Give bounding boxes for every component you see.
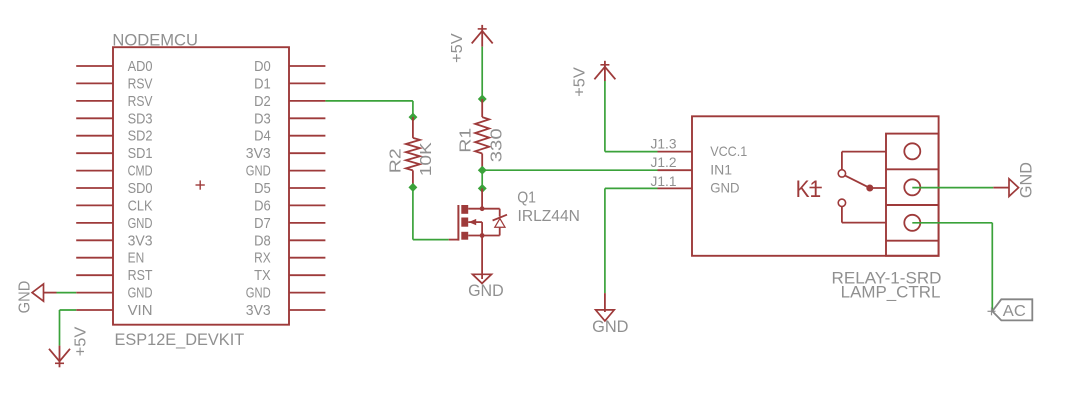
svg-text:D5: D5 — [254, 180, 271, 197]
terminal screw 2 — [904, 179, 920, 195]
svg-text:TX: TX — [254, 267, 271, 284]
relay terminal block — [886, 134, 939, 256]
svg-text:SD3: SD3 — [128, 110, 153, 127]
NODEMCU left pin RSV (row 3) — [76, 93, 152, 110]
NODEMCU left pin GND (row 14) — [76, 285, 152, 302]
NODEMCU left pin SD2 (row 5) — [76, 128, 152, 145]
wire R1 to relay IN1 (net J1.2) — [482, 169, 657, 171]
NODEMCU left pin CMD (row 7) — [76, 163, 152, 180]
svg-text:330: 330 — [488, 128, 505, 162]
svg-text:R1: R1 — [458, 128, 475, 153]
net label J1.1 — [651, 174, 677, 189]
junction at Q1 drain node — [478, 184, 487, 193]
NODEMCU right pin D5 (row 8) — [254, 180, 325, 197]
svg-text:10K: 10K — [418, 142, 435, 176]
svg-text:J1.2: J1.2 — [651, 155, 677, 170]
junction at R1 top — [478, 95, 487, 104]
+5V label at relay — [572, 67, 589, 97]
svg-text:Q1: Q1 — [517, 189, 536, 206]
svg-text:D1: D1 — [254, 75, 271, 92]
svg-text:GND: GND — [710, 180, 739, 196]
svg-text:VIN: VIN — [128, 302, 153, 319]
GND supply arrow left — [32, 284, 43, 301]
wire R2 bottom to Q1 gate — [413, 187, 449, 239]
svg-text:EN: EN — [128, 250, 145, 267]
resistor R2 — [406, 117, 420, 187]
svg-text:D2: D2 — [254, 93, 271, 110]
relay pin GND — [658, 180, 740, 196]
net label J1.2 — [651, 155, 677, 170]
svg-text:IRLZ44N: IRLZ44N — [518, 208, 580, 225]
R1 value label 330 — [488, 128, 505, 162]
svg-text:3V3: 3V3 — [246, 302, 271, 319]
NODEMCU left pin CLK (row 9) — [76, 197, 152, 214]
NODEMCU module U1 box — [113, 47, 289, 325]
NODEMCU right pin GND (row 7) — [246, 163, 326, 180]
svg-text:GND: GND — [592, 317, 628, 336]
svg-text:GND: GND — [468, 281, 504, 300]
NODEMCU left pin GND (row 10) — [76, 215, 152, 232]
NODEMCU left pin SD3 (row 4) — [76, 110, 152, 127]
net endpoint cross at AC — [988, 307, 996, 315]
terminal screw 3 — [904, 215, 920, 231]
NODEMCU right pin D3 (row 4) — [254, 110, 325, 127]
NODEMCU left pin 3V3 (row 11) — [76, 232, 152, 249]
svg-text:CLK: CLK — [128, 197, 153, 214]
wire ESP VIN pin to +5V arrow — [60, 310, 77, 346]
NODEMCU right pin 3V3 (row 6) — [246, 145, 326, 162]
net label J1.3 — [651, 136, 677, 151]
GND label left — [17, 281, 34, 314]
junction at R2 top — [409, 113, 418, 122]
terminal screw 1 — [904, 143, 920, 159]
wire R1 bottom to drain junction — [481, 170, 483, 188]
svg-text:D4: D4 — [254, 128, 271, 145]
svg-text:SD1: SD1 — [128, 145, 153, 162]
NODEMCU left pin SD0 (row 8) — [76, 180, 152, 197]
svg-text:D7: D7 — [254, 215, 271, 232]
wire +5V to R1 — [481, 47, 483, 99]
AC label — [1003, 303, 1026, 320]
NODEMCU left pin RST (row 13) — [76, 267, 152, 284]
GND supply arrow right — [1009, 179, 1019, 197]
R2 name label — [387, 148, 404, 173]
svg-text:+5V: +5V — [572, 67, 589, 97]
NODEMCU right pin D6 (row 9) — [254, 197, 325, 214]
svg-text:GND: GND — [128, 215, 153, 232]
svg-text:GND: GND — [1017, 162, 1035, 198]
svg-text:SD0: SD0 — [128, 180, 153, 197]
NODEMCU left pin RSV (row 2) — [76, 75, 152, 92]
+5V label below VIN — [73, 326, 90, 356]
svg-text:3V3: 3V3 — [246, 145, 271, 162]
GND label below J1.1 — [592, 317, 628, 336]
NODEMCU left pin EN (row 12) — [76, 250, 144, 267]
wire terminal 2 to GND arrow — [912, 187, 1009, 189]
relay pin VCC.1 — [658, 143, 748, 159]
+5V supply arrow above R1 — [472, 25, 493, 47]
svg-text:3V3: 3V3 — [128, 232, 153, 249]
svg-text:SD2: SD2 — [128, 128, 153, 145]
NODEMCU left pin VIN (row 15) — [76, 302, 152, 319]
relay contact: lower (NC) contact circle — [838, 199, 845, 206]
resistor R1 — [475, 99, 489, 170]
svg-text:CMD: CMD — [128, 163, 153, 180]
relay contact: common pole dot — [866, 185, 886, 192]
transistor Q1 IRLZ44N — [449, 188, 507, 240]
svg-text:R2: R2 — [387, 148, 404, 173]
svg-text:RSV: RSV — [128, 93, 153, 110]
Q1 value label IRLZ44N — [518, 208, 580, 225]
AC net flag — [992, 299, 1032, 320]
svg-text:+5V: +5V — [449, 33, 466, 63]
relay contact: NO terminal link — [842, 152, 886, 170]
relay contact: armature — [845, 175, 867, 186]
Q1 source wire to ground — [481, 236, 483, 280]
svg-text:RX: RX — [254, 250, 271, 267]
relay name label RELAY-1-SRD — [832, 269, 942, 288]
svg-text:RSV: RSV — [128, 75, 153, 92]
wire ESP GND pin to ground arrow — [44, 292, 77, 294]
NODEMCU right pin GND (row 14) — [246, 285, 326, 302]
origin cross of NODEMCU — [196, 180, 205, 189]
relay K1 designator — [796, 176, 822, 203]
relay contact: NC terminal link — [842, 207, 886, 223]
relay contact: upper (NO) contact circle — [838, 170, 845, 177]
NODEMCU right pin D1 (row 2) — [254, 75, 325, 92]
svg-text:RST: RST — [128, 267, 153, 284]
svg-text:J1.3: J1.3 — [651, 136, 677, 151]
svg-text:D3: D3 — [254, 110, 271, 127]
svg-text:VCC.1: VCC.1 — [710, 143, 747, 159]
NODEMCU right pin D7 (row 10) — [254, 215, 325, 232]
svg-text:IN1: IN1 — [710, 162, 732, 178]
NODEMCU left pin SD1 (row 6) — [76, 145, 152, 162]
NODEMCU left pin AD0 (row 1) — [76, 58, 152, 75]
+5V supply arrow for relay VCC — [594, 61, 615, 81]
+5V label at R1 — [449, 33, 466, 63]
ground symbol below Q1 — [473, 274, 492, 283]
relay value label LAMP_CTRL — [841, 284, 941, 302]
wire +5V to relay VCC.1 (net J1.3) — [605, 81, 658, 152]
svg-text:GND: GND — [17, 281, 34, 314]
ESP12E_DEVKIT value label — [115, 330, 245, 349]
NODEMCU right pin D0 (row 1) — [254, 58, 325, 75]
R2 value label 10K — [418, 142, 435, 176]
junction at R1 bottom — [478, 166, 487, 175]
svg-text:K1: K1 — [796, 176, 822, 203]
wire terminal 3 to AC flag — [912, 223, 992, 311]
GND label right — [1017, 162, 1035, 198]
NODEMCU right pin D8 (row 11) — [254, 232, 325, 249]
NODEMCU right pin D2 (row 3) — [254, 93, 325, 110]
svg-text:D8: D8 — [254, 232, 271, 249]
svg-text:GND: GND — [246, 163, 271, 180]
NODEMCU right pin D4 (row 5) — [254, 128, 325, 145]
wire relay GND pin to ground (net J1.1) — [605, 188, 658, 312]
svg-text:GND: GND — [246, 285, 271, 302]
relay pin IN1 — [658, 162, 733, 178]
svg-text:GND: GND — [128, 285, 153, 302]
svg-text:D6: D6 — [254, 197, 271, 214]
svg-text:D0: D0 — [254, 58, 271, 75]
svg-text:J1.1: J1.1 — [651, 174, 677, 189]
junction at R2 bottom — [408, 183, 417, 192]
svg-text:LAMP_CTRL: LAMP_CTRL — [841, 284, 941, 302]
svg-text:AD0: AD0 — [128, 58, 153, 75]
NODEMCU right pin RX (row 12) — [254, 250, 325, 267]
svg-text:NODEMCU: NODEMCU — [112, 31, 198, 50]
svg-text:+5V: +5V — [73, 326, 90, 356]
ground symbol below J1.1 wire — [596, 310, 615, 321]
relay module box — [692, 116, 939, 256]
Q1 name label — [517, 189, 536, 206]
NODEMCU right pin 3V3 (row 15) — [246, 302, 326, 319]
R1 name label — [458, 128, 475, 153]
NODEMCU right pin TX (row 13) — [254, 267, 325, 284]
GND label below Q1 — [468, 281, 504, 300]
svg-text:AC: AC — [1003, 303, 1026, 320]
svg-text:ESP12E_DEVKIT: ESP12E_DEVKIT — [115, 330, 245, 349]
wire from D2 pin to R2 top — [325, 101, 413, 117]
NODEMCU part name label — [112, 31, 198, 50]
+5V supply arrow below VIN (pointing down) — [49, 346, 70, 368]
